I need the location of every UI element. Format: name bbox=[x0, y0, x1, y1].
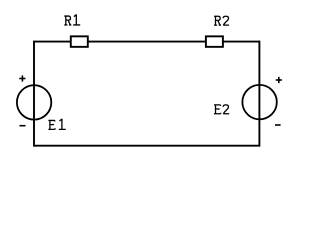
E2 plus polarity mark bbox=[276, 77, 282, 83]
voltage source E1 bbox=[17, 85, 51, 119]
E1 minus polarity mark bbox=[20, 125, 26, 127]
label E2 bbox=[214, 105, 229, 114]
wire left bbox=[33, 41, 35, 147]
wire top (between R1 and R2) bbox=[34, 41, 259, 43]
wire bottom bbox=[34, 145, 259, 147]
label E1 bbox=[48, 119, 65, 130]
E1 plus polarity mark bbox=[19, 75, 25, 81]
E2 minus polarity mark bbox=[275, 124, 281, 126]
resistor R1 bbox=[71, 36, 88, 47]
label R1 bbox=[64, 14, 80, 25]
voltage source E2 bbox=[242, 85, 276, 119]
wire right bbox=[258, 41, 260, 147]
resistor R2 bbox=[206, 36, 223, 47]
label R2 bbox=[214, 16, 229, 25]
